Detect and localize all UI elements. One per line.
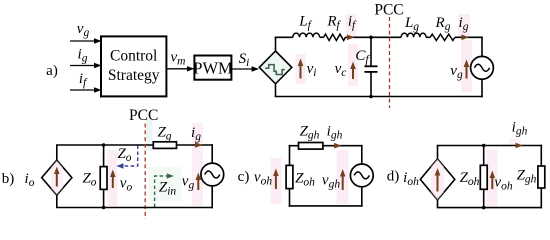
svg-text:io: io: [25, 171, 35, 189]
svg-text:voh: voh: [254, 170, 272, 188]
cyan patch left of PCC (b): [146, 119, 153, 151]
highlight band behind voh arrow (c): [271, 158, 282, 204]
wire right branch b: [211, 144, 213, 208]
node junction Zoh top (d): [482, 144, 486, 148]
control strategy block: [101, 36, 166, 96]
voltage arrow vg (a): [464, 60, 470, 79]
svg-text:voh: voh: [494, 175, 512, 193]
input arrow if: [70, 87, 102, 92]
svg-text:Zgh: Zgh: [300, 124, 320, 142]
impedance Zg box: [153, 142, 176, 149]
svg-text:Zo: Zo: [82, 171, 96, 189]
svg-text:vc: vc: [335, 61, 347, 79]
svg-text:ioh: ioh: [403, 170, 419, 188]
highlight band behind vi arrow: [296, 54, 306, 84]
measurement arrow Zo dashed blue: [117, 146, 138, 169]
svg-text:PCC: PCC: [374, 2, 403, 19]
capacitor Cf: [365, 37, 378, 96]
node PCC dashed line (b): [144, 124, 146, 220]
svg-text:Zg: Zg: [157, 125, 171, 143]
impedance Zoh box (c): [286, 145, 293, 207]
highlight band behind vgh arrow (c): [337, 150, 349, 204]
impedance Zgh box (d): [538, 145, 545, 209]
measurement arrow Zin dashed green: [155, 173, 174, 207]
wire Rg to corner: [455, 36, 483, 38]
highlight band behind if label: [346, 14, 357, 37]
signal arrow vm: [166, 66, 194, 71]
wire top rail c: [289, 145, 363, 147]
input arrow ig: [70, 63, 102, 68]
wire right branch a: [481, 37, 483, 98]
svg-text:if: if: [79, 71, 88, 89]
svg-text:d): d): [387, 169, 400, 185]
source vgh (c): [350, 164, 373, 187]
svg-text:b): b): [2, 171, 15, 187]
current arrow igh (d): [516, 143, 524, 149]
svg-text:Lf: Lf: [298, 14, 312, 32]
highlight band behind vc arrow: [348, 44, 358, 86]
svg-text:Lg: Lg: [404, 15, 419, 33]
wire node to Lg: [371, 36, 401, 38]
voltage arrow voh (c): [273, 169, 279, 190]
inductor Lg: [401, 33, 426, 37]
svg-text:Control: Control: [110, 48, 157, 65]
wire top rail b: [56, 144, 213, 146]
controlled source U1 diamond (inverter): [259, 51, 292, 84]
source vg grid (a): [471, 56, 494, 79]
input arrow vg: [70, 38, 102, 43]
inductor Lf: [293, 33, 320, 37]
wire U1 top to rail: [275, 37, 277, 51]
wire Lf to Rf: [320, 36, 324, 38]
voltage arrow vc: [350, 62, 356, 80]
svg-text:igh: igh: [512, 120, 528, 138]
node Cf junction bottom: [369, 95, 373, 99]
svg-text:Zo: Zo: [117, 146, 131, 164]
wire Lg to Rg: [426, 36, 430, 38]
svg-text:vm: vm: [171, 50, 186, 68]
current arrow ig (b): [195, 142, 203, 148]
wire right branch c: [361, 145, 363, 207]
voltage arrow vg (b): [196, 173, 202, 191]
svg-text:Rg: Rg: [435, 15, 451, 33]
svg-text:Strategy: Strategy: [108, 67, 160, 84]
highlight band behind vo arrow (b): [108, 150, 118, 206]
highlight band behind ig label and vg arrow (b): [192, 123, 203, 206]
signal arrow Si: [231, 66, 259, 71]
highlight band behind voh arrow (d): [487, 150, 498, 206]
wire bottom rail a: [275, 96, 483, 98]
svg-text:Zgh: Zgh: [517, 168, 537, 186]
svg-text:Zoh: Zoh: [460, 170, 480, 188]
node junction Zo bottom: [102, 206, 106, 210]
highlight band behind ig label (a): [458, 14, 470, 37]
svg-text:ig: ig: [78, 47, 88, 65]
green patch around Zin (b): [149, 167, 181, 201]
svg-text:Zoh: Zoh: [295, 171, 315, 189]
svg-text:PCC: PCC: [129, 107, 158, 124]
svg-text:a): a): [46, 63, 58, 79]
controlled source io diamond (b): [42, 160, 72, 195]
voltage arrow vo: [110, 170, 116, 189]
highlight band behind vg arrow (a): [461, 40, 472, 92]
impedance Zoh box (d): [480, 146, 487, 208]
svg-text:PWM: PWM: [193, 59, 233, 78]
source vg (b): [201, 163, 224, 186]
node Cf junction top: [369, 36, 373, 40]
voltage arrow vi: [298, 59, 304, 79]
square-wave glyph inside U1: [265, 65, 285, 75]
wire bottom rail d: [437, 207, 542, 209]
voltage arrow voh (d): [490, 171, 496, 190]
wire U1 bottom to rail: [275, 83, 277, 96]
wire left branch d: [437, 146, 439, 208]
svg-text:Rf: Rf: [326, 14, 341, 32]
source arrow inside io diamond: [54, 167, 60, 187]
impedance Zo box: [100, 145, 107, 208]
wire Rf to Cf node: [346, 36, 372, 38]
svg-text:Si: Si: [239, 51, 250, 69]
svg-text:c): c): [238, 169, 250, 185]
svg-text:igh: igh: [327, 124, 343, 142]
node junction Zo top: [102, 143, 106, 147]
node PCC dashed line (a): [389, 17, 391, 108]
wire top rail d: [437, 145, 542, 147]
source arrow inside ioh diamond: [435, 168, 441, 192]
controlled source ioh diamond (d): [420, 159, 455, 200]
wire bottom rail b: [56, 207, 213, 209]
wire left branch b: [56, 145, 58, 208]
resistor Rg: [430, 34, 455, 40]
PWM block: [193, 56, 233, 80]
current arrow igh (c): [334, 143, 342, 149]
current arrow if: [347, 35, 355, 41]
highlight patch behind igh arrow (d): [509, 139, 521, 147]
svg-text:vo: vo: [120, 176, 133, 194]
resistor Rf: [324, 34, 346, 40]
node junction Zoh bottom (d): [482, 206, 486, 210]
voltage arrow vgh (c): [340, 169, 346, 190]
svg-text:vg: vg: [77, 21, 90, 39]
svg-text:vi: vi: [307, 61, 317, 79]
svg-text:Cf: Cf: [355, 48, 370, 66]
wire top rail a left: [275, 36, 294, 38]
current arrow ig (a): [462, 35, 470, 41]
impedance Zgh box (c): [299, 143, 323, 150]
wire bottom rail c: [289, 205, 363, 207]
